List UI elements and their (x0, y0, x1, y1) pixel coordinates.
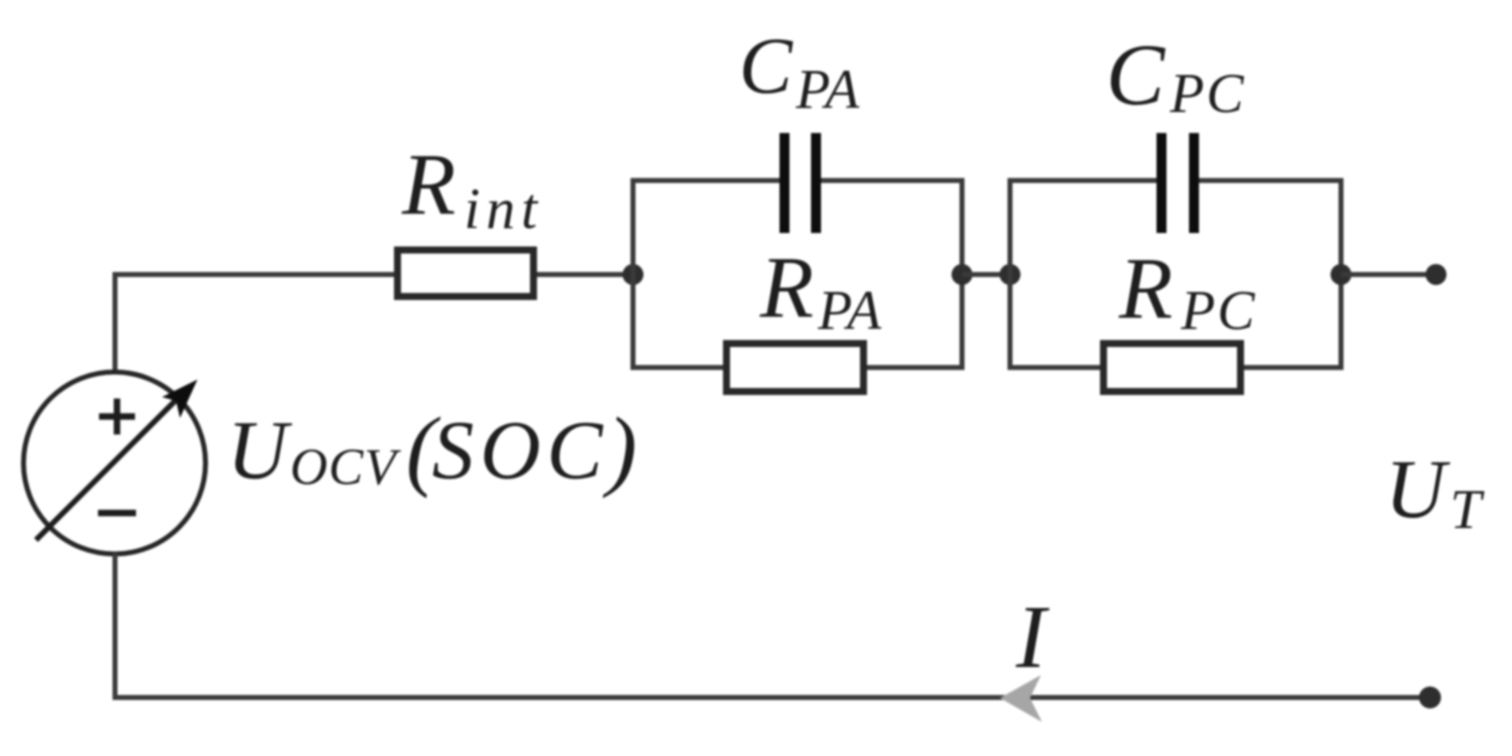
capacitor CPA left plate (780, 133, 790, 233)
wire PC bottom rail left (1008, 365, 1101, 370)
wire voltage source bottom to bottom-left corner (113, 553, 118, 700)
wire resistor Rint to node A (537, 272, 633, 277)
svg-text:U: U (227, 404, 293, 497)
resistor RPC body (1104, 344, 1241, 392)
wire top-left corner to resistor Rint (113, 272, 395, 277)
wire left branch vertical of PA block (631, 178, 636, 370)
svg-text:PC: PC (1180, 280, 1257, 342)
svg-text:T: T (1450, 479, 1485, 541)
wire PA bottom rail right (867, 365, 965, 370)
svg-text:R: R (759, 240, 814, 337)
wire PA top rail left (631, 178, 780, 183)
svg-text:OCV: OCV (290, 439, 401, 496)
capacitor CPC right plate (1189, 133, 1199, 233)
svg-text:PC: PC (1169, 63, 1246, 125)
node B (952, 264, 973, 285)
wire PA top rail right (821, 178, 965, 183)
svg-text:C: C (1106, 27, 1166, 124)
svg-text:R: R (401, 137, 456, 234)
svg-text:SOC: SOC (432, 404, 609, 497)
wire right branch vertical of PA block (960, 178, 965, 370)
svg-text:C: C (739, 23, 794, 111)
positive terminal dot (1426, 264, 1447, 285)
node D (1331, 264, 1352, 285)
node C (1000, 264, 1021, 285)
current arrow I head (1000, 675, 1042, 722)
wire PA bottom rail left (631, 365, 724, 370)
svg-text:int: int (464, 176, 543, 241)
node A (623, 264, 644, 285)
svg-text:PA: PA (817, 280, 883, 342)
wire bottom return rail (113, 695, 1431, 700)
wire PC top rail left (1008, 178, 1157, 183)
variable-source diagonal arrow shaft (36, 392, 184, 540)
wire node B to node C (962, 272, 1010, 277)
resistor Rint body (398, 250, 534, 297)
voltage source U_OCV circle (24, 372, 206, 554)
svg-text:): ) (602, 400, 637, 499)
svg-text:R: R (1118, 241, 1173, 338)
wire node D to positive terminal (1341, 272, 1436, 277)
wire PC top rail right (1199, 178, 1344, 183)
svg-text:PA: PA (795, 59, 861, 121)
capacitor CPA right plate (811, 133, 821, 233)
minus sign (98, 510, 136, 517)
capacitor CPC left plate (1157, 133, 1167, 233)
wire right branch vertical of PC block (1339, 178, 1344, 370)
plus sign (99, 399, 135, 435)
resistor RPA body (727, 344, 864, 392)
negative terminal dot (1419, 687, 1441, 709)
svg-text:U: U (1385, 443, 1451, 536)
wire PC bottom rail right (1244, 365, 1344, 370)
wire from voltage source top to top-left corner (113, 277, 118, 372)
wire left branch vertical of PC block (1008, 178, 1013, 370)
variable-source arrowhead (162, 380, 198, 419)
svg-text:I: I (1015, 588, 1050, 687)
